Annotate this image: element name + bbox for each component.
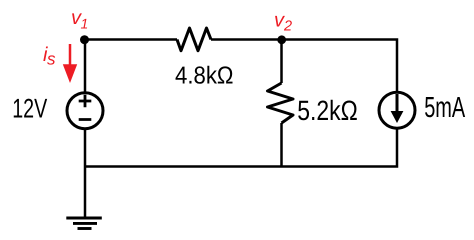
svg-text:s: s [47, 49, 56, 68]
svg-text:5mA: 5mA [424, 92, 465, 124]
svg-text:2: 2 [283, 19, 292, 35]
svg-text:4.8kΩ: 4.8kΩ [175, 63, 234, 90]
svg-text:12V: 12V [12, 94, 47, 124]
svg-text:1: 1 [81, 16, 89, 32]
svg-text:5.2kΩ: 5.2kΩ [297, 95, 358, 126]
